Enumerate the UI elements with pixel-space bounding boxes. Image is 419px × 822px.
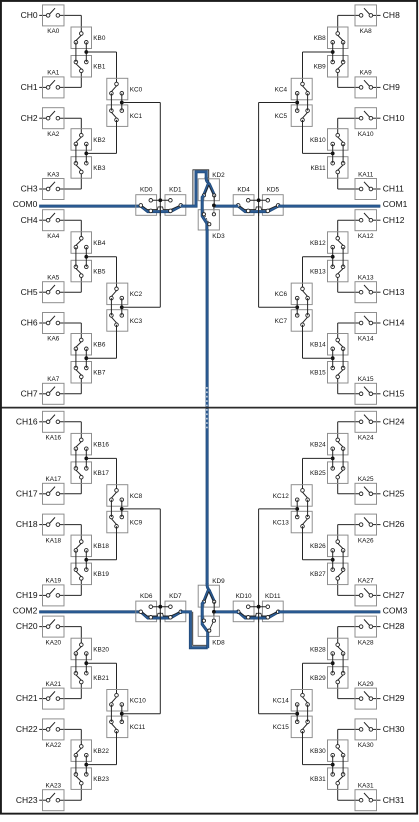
wire — [338, 783, 381, 800]
node CH14 — [383, 318, 405, 328]
frame divider — [1, 407, 417, 409]
relay KA13 — [355, 275, 377, 303]
svg-text:KD4: KD4 — [237, 187, 250, 194]
svg-text:CH15: CH15 — [383, 388, 405, 398]
svg-text:CH28: CH28 — [383, 621, 405, 631]
svg-text:KA9: KA9 — [360, 70, 373, 77]
svg-text:KA18: KA18 — [45, 537, 61, 544]
svg-text:KA5: KA5 — [47, 275, 60, 282]
svg-text:KA29: KA29 — [358, 681, 374, 688]
node CH18 — [16, 519, 38, 529]
svg-text:CH1: CH1 — [21, 82, 38, 92]
wire — [259, 306, 298, 308]
junction — [84, 457, 88, 461]
relay KB6 — [71, 334, 106, 356]
relay KA17 — [43, 476, 65, 504]
svg-text:KD10: KD10 — [236, 593, 252, 600]
net COM0 — [13, 199, 38, 209]
svg-text:KC13: KC13 — [273, 519, 289, 526]
relay KA5 — [43, 275, 65, 303]
wire echo — [141, 612, 180, 616]
svg-text:CH27: CH27 — [383, 590, 405, 600]
svg-text:KB10: KB10 — [310, 137, 326, 144]
wire — [39, 323, 81, 340]
svg-text:KC8: KC8 — [130, 493, 143, 500]
relay KB26 — [310, 535, 348, 557]
relay KB1 — [71, 56, 106, 78]
svg-text:CH16: CH16 — [16, 416, 38, 426]
wire — [76, 42, 86, 62]
svg-text:KC7: KC7 — [275, 318, 288, 325]
wire — [333, 42, 343, 62]
wire — [86, 526, 116, 560]
svg-text:KA2: KA2 — [47, 131, 60, 138]
svg-text:KB30: KB30 — [310, 748, 326, 755]
wire — [213, 612, 215, 621]
wire — [86, 120, 116, 153]
relay KB16 — [71, 433, 109, 455]
svg-text:KA26: KA26 — [358, 537, 374, 544]
svg-text:KA10: KA10 — [358, 131, 374, 138]
svg-text:KB16: KB16 — [93, 441, 109, 448]
svg-text:KC1: KC1 — [130, 113, 143, 120]
wire — [86, 257, 116, 289]
relay KB2 — [71, 129, 106, 151]
relay KA20 — [43, 616, 65, 646]
svg-text:CH29: CH29 — [383, 693, 405, 703]
svg-text:CH25: CH25 — [383, 488, 405, 498]
svg-text:KA23: KA23 — [45, 783, 61, 790]
wire — [297, 93, 307, 110]
svg-text:CH19: CH19 — [16, 590, 38, 600]
junction — [331, 661, 335, 665]
svg-text:KC12: KC12 — [273, 493, 289, 500]
svg-text:KD9: KD9 — [212, 578, 225, 585]
svg-text:KB23: KB23 — [93, 776, 109, 783]
relay KA18 — [43, 514, 65, 544]
relay KB25 — [310, 462, 348, 484]
wire — [39, 220, 81, 238]
svg-text:CH7: CH7 — [21, 388, 38, 398]
svg-text:KD5: KD5 — [267, 187, 280, 194]
node CH21 — [16, 693, 38, 703]
svg-text:KC3: KC3 — [130, 318, 143, 325]
junction — [158, 198, 162, 202]
relay KB11 — [311, 157, 348, 179]
junction — [84, 763, 88, 767]
junction — [295, 712, 299, 716]
svg-text:KC14: KC14 — [273, 698, 289, 705]
svg-text:KB31: KB31 — [310, 776, 326, 783]
svg-text:KB15: KB15 — [310, 370, 326, 377]
wire — [76, 144, 86, 163]
relay KA27 — [355, 578, 377, 606]
junction — [331, 152, 335, 156]
relay KA4 — [43, 210, 65, 240]
svg-text:KA17: KA17 — [45, 476, 61, 483]
relay KA0 — [43, 5, 65, 35]
relay KA3 — [43, 171, 65, 199]
wire — [338, 627, 381, 645]
wire crossing — [258, 612, 260, 622]
node CH12 — [383, 215, 405, 225]
svg-text:KB1: KB1 — [93, 64, 106, 71]
wire — [333, 449, 343, 469]
svg-text:KA22: KA22 — [45, 742, 61, 749]
relay KA11 — [355, 171, 377, 199]
wire bank right — [258, 509, 260, 714]
wire bank left — [159, 103, 161, 308]
svg-text:KA20: KA20 — [45, 639, 61, 646]
relay KC9 — [107, 511, 143, 533]
node CH10 — [383, 113, 405, 123]
node CH2 — [21, 113, 38, 123]
node CH15 — [383, 388, 405, 398]
wire echo tower — [193, 612, 208, 646]
relay KA15 — [355, 376, 377, 404]
wire — [76, 550, 86, 569]
wire — [111, 93, 121, 110]
junction — [331, 763, 335, 767]
relay KB22 — [71, 740, 109, 762]
wire — [338, 118, 381, 135]
wire — [76, 349, 86, 368]
wire — [111, 705, 121, 722]
relay KD4 / KD5 pair — [233, 187, 283, 216]
relay KA6 — [43, 313, 65, 343]
wire — [303, 526, 333, 560]
svg-text:COM1: COM1 — [383, 199, 408, 209]
svg-text:KB4: KB4 — [93, 240, 106, 247]
svg-text:COM2: COM2 — [13, 606, 38, 616]
wire — [86, 731, 116, 765]
relay KA19 — [43, 578, 65, 606]
relay KC5 — [275, 105, 313, 127]
relay KB3 — [71, 157, 106, 179]
wire echo — [239, 612, 278, 616]
svg-text:KB6: KB6 — [93, 342, 106, 349]
svg-text:KA4: KA4 — [47, 233, 60, 240]
relay KD9 — [198, 578, 225, 607]
junction — [295, 507, 299, 511]
contacts — [139, 605, 183, 619]
relay KB0 — [71, 27, 106, 49]
svg-text:KC2: KC2 — [130, 291, 143, 298]
wire — [39, 578, 81, 595]
svg-text:KD3: KD3 — [212, 233, 225, 240]
svg-text:KA12: KA12 — [358, 233, 374, 240]
relay KA16 — [43, 411, 65, 441]
junction — [212, 204, 216, 208]
junction — [120, 507, 124, 511]
svg-text:KB17: KB17 — [93, 470, 109, 477]
svg-text:KA1: KA1 — [47, 70, 60, 77]
svg-text:KA6: KA6 — [47, 336, 60, 343]
wire — [122, 508, 161, 510]
wire echo — [141, 205, 180, 209]
junction — [257, 605, 261, 609]
svg-text:KC5: KC5 — [275, 113, 288, 120]
relay KA29 — [355, 681, 377, 709]
svg-text:KD1: KD1 — [169, 187, 182, 194]
wire — [86, 52, 116, 84]
svg-text:CH0: CH0 — [21, 10, 38, 20]
wire bank right — [258, 103, 260, 308]
svg-text:KA25: KA25 — [358, 476, 374, 483]
relay KB29 — [310, 667, 348, 689]
contacts — [139, 199, 183, 213]
relay KD2 — [198, 172, 225, 201]
svg-text:KD7: KD7 — [169, 593, 182, 600]
junction — [331, 255, 335, 259]
wire — [297, 500, 307, 517]
wire — [297, 298, 307, 315]
wire — [39, 627, 81, 645]
junction — [84, 661, 88, 665]
relay KA9 — [355, 70, 377, 98]
svg-text:KB22: KB22 — [93, 748, 109, 755]
svg-text:CH8: CH8 — [383, 10, 400, 20]
wire echo tower — [193, 170, 209, 206]
net COM3 — [383, 606, 408, 616]
relay KA8 — [355, 5, 377, 35]
node CH30 — [383, 724, 405, 734]
svg-text:CH24: CH24 — [383, 416, 405, 426]
relay KC4 — [275, 78, 313, 100]
svg-text:KA28: KA28 — [358, 639, 374, 646]
node CH5 — [21, 287, 38, 297]
junction — [120, 101, 124, 105]
wire — [338, 682, 381, 699]
wire — [259, 713, 298, 715]
wire — [39, 15, 81, 33]
wire — [111, 298, 121, 315]
svg-text:CH4: CH4 — [21, 215, 38, 225]
svg-text:KC0: KC0 — [130, 86, 143, 93]
svg-text:KA14: KA14 — [358, 336, 374, 343]
wire — [338, 729, 381, 746]
wire crossing — [159, 206, 161, 216]
junction — [84, 255, 88, 259]
wire — [39, 525, 81, 542]
relay KC11 — [107, 716, 146, 738]
wire — [76, 654, 86, 674]
node CH20 — [16, 621, 38, 631]
wire — [122, 713, 161, 715]
svg-text:KB11: KB11 — [311, 165, 327, 172]
wire main bus — [206, 229, 209, 584]
net COM2 — [13, 606, 38, 616]
wire blue tower — [181, 172, 206, 206]
svg-text:KA13: KA13 — [358, 275, 374, 282]
svg-text:KB12: KB12 — [310, 240, 326, 247]
wire — [213, 205, 215, 214]
node CH6 — [21, 318, 38, 328]
node CH8 — [383, 10, 400, 20]
svg-text:KB24: KB24 — [310, 441, 326, 448]
relay KA22 — [43, 719, 65, 749]
relay KB19 — [71, 563, 109, 585]
wire — [39, 682, 81, 699]
relay KB23 — [71, 768, 109, 790]
junction — [120, 712, 124, 716]
contacts — [236, 199, 280, 213]
relay KB8 — [314, 27, 348, 49]
wire — [333, 550, 343, 569]
wire blue tower — [181, 612, 208, 648]
svg-text:KB29: KB29 — [310, 675, 326, 682]
svg-text:KB3: KB3 — [93, 165, 106, 172]
svg-text:CH9: CH9 — [383, 82, 400, 92]
svg-text:KC11: KC11 — [130, 724, 146, 731]
svg-text:KA27: KA27 — [358, 578, 374, 585]
wire — [303, 663, 333, 695]
svg-text:KA30: KA30 — [358, 742, 374, 749]
wire — [297, 705, 307, 722]
junction — [84, 50, 88, 54]
wire — [338, 276, 381, 293]
wire — [122, 306, 161, 308]
wire blue — [214, 205, 380, 208]
node CH26 — [383, 519, 405, 529]
junction — [84, 558, 88, 562]
relay KA24 — [355, 411, 377, 441]
relay KA2 — [43, 108, 65, 138]
svg-text:KB5: KB5 — [93, 268, 106, 275]
relay KC2 — [107, 283, 143, 305]
svg-text:CH12: CH12 — [383, 215, 405, 225]
node CH13 — [383, 287, 405, 297]
relay KB10 — [310, 129, 348, 151]
wire — [303, 458, 333, 490]
svg-text:KB21: KB21 — [93, 675, 109, 682]
svg-text:KC10: KC10 — [130, 698, 146, 705]
relay KB9 — [314, 56, 348, 78]
svg-text:CH2: CH2 — [21, 113, 38, 123]
relay KC12 — [273, 485, 312, 507]
junction — [331, 50, 335, 54]
wire — [338, 71, 381, 88]
relay KB18 — [71, 535, 109, 557]
node CH11 — [383, 184, 404, 194]
relay KB5 — [71, 260, 106, 282]
wire — [303, 52, 333, 84]
svg-text:CH26: CH26 — [383, 519, 405, 529]
relay KB21 — [71, 667, 109, 689]
node CH9 — [383, 82, 400, 92]
svg-text:CH17: CH17 — [16, 488, 38, 498]
svg-text:KC6: KC6 — [275, 291, 288, 298]
wire — [333, 654, 343, 674]
relay KC8 — [107, 485, 143, 507]
relay KA31 — [355, 783, 377, 811]
node CH7 — [21, 388, 38, 398]
svg-text:KB25: KB25 — [310, 470, 326, 477]
wire blue — [214, 610, 380, 613]
relay KA25 — [355, 476, 377, 504]
wire — [39, 71, 81, 88]
node CH17 — [16, 488, 38, 498]
svg-text:KA15: KA15 — [358, 376, 374, 383]
relay KA1 — [43, 70, 65, 98]
relay KC13 — [273, 511, 312, 533]
relay KB12 — [310, 232, 348, 254]
wire blue — [141, 206, 181, 212]
junction — [331, 457, 335, 461]
svg-text:KB9: KB9 — [314, 64, 327, 71]
wire — [333, 755, 343, 774]
relay KD10 / KD11 pair — [233, 593, 283, 622]
relay KB31 — [310, 768, 348, 790]
wire — [338, 578, 381, 595]
node CH4 — [21, 215, 38, 225]
svg-text:KA3: KA3 — [47, 171, 60, 178]
relay KB14 — [310, 334, 348, 356]
svg-text:CH30: CH30 — [383, 724, 405, 734]
svg-text:COM3: COM3 — [383, 606, 408, 616]
svg-text:KB27: KB27 — [310, 571, 326, 578]
wire — [303, 731, 333, 765]
svg-text:CH10: CH10 — [383, 113, 405, 123]
node CH19 — [16, 590, 38, 600]
svg-text:CH13: CH13 — [383, 287, 405, 297]
svg-text:KA16: KA16 — [45, 435, 61, 442]
svg-text:KC4: KC4 — [275, 86, 288, 93]
relay KB4 — [71, 232, 106, 254]
wire — [338, 15, 381, 33]
svg-text:KA21: KA21 — [45, 681, 61, 688]
relay KA21 — [43, 681, 65, 709]
junction — [295, 305, 299, 309]
relay KD6 / KD7 pair — [136, 593, 186, 622]
svg-text:KD8: KD8 — [212, 639, 225, 646]
wire — [338, 323, 381, 340]
wire — [259, 102, 298, 104]
wire — [39, 477, 81, 494]
junction — [257, 198, 261, 202]
node CH3 — [21, 184, 38, 194]
relay KB28 — [310, 638, 348, 660]
relay KC6 — [275, 283, 313, 305]
relay KB7 — [71, 362, 106, 384]
wire blue — [238, 206, 278, 212]
wire — [338, 477, 381, 494]
node CH16 — [16, 416, 38, 426]
junction — [295, 101, 299, 105]
wire — [338, 422, 381, 440]
junction — [212, 610, 216, 614]
node CH27 — [383, 590, 405, 600]
relay KC0 — [107, 78, 143, 100]
svg-text:KB18: KB18 — [93, 543, 109, 550]
junction — [84, 356, 88, 360]
wire — [39, 729, 81, 746]
wire — [333, 144, 343, 163]
relay KC7 — [275, 310, 313, 332]
junction — [331, 558, 335, 562]
wire — [39, 276, 81, 293]
relay KA14 — [355, 313, 377, 343]
svg-text:KA8: KA8 — [360, 28, 373, 35]
node CH1 — [21, 82, 38, 92]
svg-text:CH18: CH18 — [16, 519, 38, 529]
relay KC3 — [107, 310, 143, 332]
svg-text:CH5: CH5 — [21, 287, 38, 297]
wire crossing — [258, 206, 260, 216]
svg-text:KD0: KD0 — [140, 187, 153, 194]
wire — [333, 349, 343, 368]
node CH25 — [383, 488, 405, 498]
